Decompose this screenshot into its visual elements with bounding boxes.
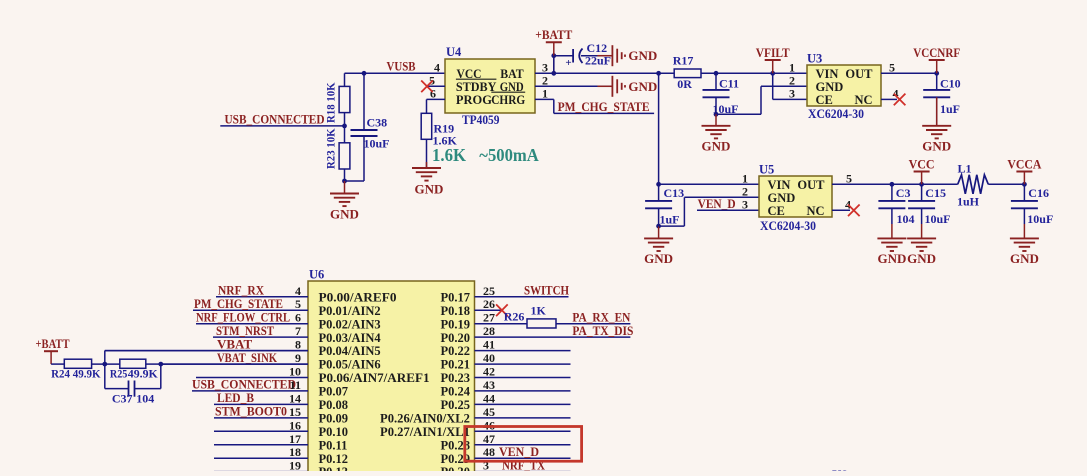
svg-text:NC: NC <box>806 204 824 218</box>
svg-text:C38: C38 <box>367 116 388 130</box>
svg-text:VIN: VIN <box>816 67 839 81</box>
svg-text:C15: C15 <box>925 186 946 200</box>
svg-text:19: 19 <box>289 459 301 471</box>
svg-text:P0.06/AIN7/AREF1: P0.06/AIN7/AREF1 <box>319 371 430 385</box>
svg-text:P0.22: P0.22 <box>440 344 470 358</box>
svg-text:BAT: BAT <box>500 67 524 81</box>
svg-text:R25: R25 <box>110 367 128 381</box>
svg-text:P0.11: P0.11 <box>319 438 348 452</box>
svg-text:40: 40 <box>483 351 495 365</box>
svg-text:L1: L1 <box>958 162 972 176</box>
svg-text:P0.13: P0.13 <box>319 465 349 471</box>
svg-text:10uF: 10uF <box>364 137 390 151</box>
svg-text:9: 9 <box>295 351 301 365</box>
svg-text:5: 5 <box>889 60 895 74</box>
svg-text:VCC: VCC <box>909 156 935 171</box>
svg-text:P0.12: P0.12 <box>319 452 349 466</box>
svg-text:VEN_D: VEN_D <box>698 196 736 211</box>
svg-text:GND: GND <box>628 48 657 63</box>
svg-text:GND: GND <box>816 80 844 94</box>
svg-text:3: 3 <box>542 60 548 74</box>
svg-text:C16: C16 <box>1028 186 1049 200</box>
svg-text:27: 27 <box>483 311 495 325</box>
svg-text:1: 1 <box>742 171 748 185</box>
svg-text:P0.19: P0.19 <box>440 317 470 331</box>
svg-text:4: 4 <box>295 284 301 298</box>
svg-text:R17: R17 <box>673 53 694 67</box>
svg-text:P0.24: P0.24 <box>440 385 470 399</box>
svg-text:47: 47 <box>483 432 495 446</box>
svg-text:1: 1 <box>542 86 548 100</box>
svg-text:0R: 0R <box>677 77 692 91</box>
svg-text:10uF: 10uF <box>1027 212 1053 226</box>
svg-text:STM_BOOT0: STM_BOOT0 <box>215 404 287 419</box>
svg-text:XC6204-30: XC6204-30 <box>808 107 864 121</box>
svg-text:6: 6 <box>430 86 436 100</box>
svg-text:18: 18 <box>289 445 301 459</box>
svg-text:CE: CE <box>816 93 833 107</box>
svg-text:R26: R26 <box>504 310 525 324</box>
svg-text:PM_CHG_STATE: PM_CHG_STATE <box>558 99 650 114</box>
svg-text:49.9K: 49.9K <box>128 367 159 381</box>
svg-text:VFILT: VFILT <box>756 45 790 60</box>
svg-text:+: + <box>565 57 571 69</box>
svg-text:GND: GND <box>702 139 731 154</box>
svg-text:8: 8 <box>295 338 301 352</box>
svg-text:11: 11 <box>290 378 301 392</box>
svg-text:5: 5 <box>846 171 852 185</box>
svg-text:OUT: OUT <box>845 67 873 81</box>
svg-text:+BATT: +BATT <box>535 27 572 42</box>
svg-text:P0.27/AIN1/XL1: P0.27/AIN1/XL1 <box>380 425 470 439</box>
svg-text:GND: GND <box>330 206 359 221</box>
svg-text:R24 49.9K: R24 49.9K <box>51 367 101 381</box>
svg-text:XC6204-30: XC6204-30 <box>760 219 816 233</box>
svg-text:PROG: PROG <box>456 93 492 107</box>
svg-text:15: 15 <box>289 405 301 419</box>
svg-text:2: 2 <box>542 73 548 87</box>
svg-text:P0.17: P0.17 <box>440 290 470 304</box>
svg-text:C37: C37 <box>112 392 133 406</box>
svg-text:VCCNRF: VCCNRF <box>913 45 960 60</box>
svg-text:28: 28 <box>483 324 495 338</box>
svg-text:TP4059: TP4059 <box>462 113 500 127</box>
svg-text:P0.09: P0.09 <box>319 412 349 426</box>
svg-text:C3: C3 <box>896 186 911 200</box>
svg-text:14: 14 <box>289 391 301 405</box>
svg-text:43: 43 <box>483 378 495 392</box>
svg-text:P0.03/AIN4: P0.03/AIN4 <box>319 331 382 345</box>
svg-text:VCCA: VCCA <box>1007 156 1042 171</box>
svg-text:10uF: 10uF <box>925 212 951 226</box>
svg-text:C11: C11 <box>719 76 739 90</box>
svg-text:GND: GND <box>877 251 906 266</box>
svg-text:6: 6 <box>295 311 301 325</box>
svg-text:1: 1 <box>789 60 795 74</box>
svg-text:44: 44 <box>483 391 495 405</box>
svg-text:U8: U8 <box>832 467 848 471</box>
svg-text:P0.30: P0.30 <box>440 465 470 471</box>
svg-text:P0.10: P0.10 <box>319 425 349 439</box>
svg-text:2: 2 <box>789 73 795 87</box>
svg-text:1K: 1K <box>531 303 547 317</box>
svg-text:NRF_TX: NRF_TX <box>502 457 546 471</box>
svg-text:VUSB: VUSB <box>387 58 416 73</box>
svg-text:GND: GND <box>628 79 657 94</box>
svg-text:P0.04/AIN5: P0.04/AIN5 <box>319 344 381 358</box>
svg-text:U3: U3 <box>807 51 822 65</box>
svg-text:P0.26/AIN0/XL2: P0.26/AIN0/XL2 <box>380 412 470 426</box>
svg-text:7: 7 <box>295 324 301 338</box>
svg-text:OUT: OUT <box>797 178 825 192</box>
svg-text:1uF: 1uF <box>660 213 680 227</box>
svg-text:R18 10K: R18 10K <box>324 82 338 123</box>
svg-text:CE: CE <box>768 204 785 218</box>
svg-text:VIN: VIN <box>768 178 791 192</box>
svg-text:104: 104 <box>136 392 154 406</box>
svg-text:1.6K: 1.6K <box>432 145 466 165</box>
svg-text:45: 45 <box>483 405 495 419</box>
svg-text:GND: GND <box>907 251 936 266</box>
svg-text:U4: U4 <box>446 45 462 59</box>
svg-text:GND: GND <box>644 251 673 266</box>
svg-text:5: 5 <box>295 297 301 311</box>
svg-text:GND: GND <box>415 182 444 197</box>
svg-text:1uH: 1uH <box>957 194 980 208</box>
svg-text:4: 4 <box>434 60 440 74</box>
svg-text:4: 4 <box>845 197 851 211</box>
svg-text:U6: U6 <box>309 268 324 282</box>
svg-text:17: 17 <box>289 432 301 446</box>
svg-text:GND: GND <box>1010 251 1039 266</box>
svg-text:104: 104 <box>897 212 915 226</box>
svg-text:P0.08: P0.08 <box>319 398 349 412</box>
svg-text:3: 3 <box>789 86 795 100</box>
svg-text:P0.05/AIN6: P0.05/AIN6 <box>319 358 381 372</box>
svg-text:GND: GND <box>768 191 796 205</box>
svg-text:NC: NC <box>854 93 872 107</box>
svg-text:P0.21: P0.21 <box>440 358 470 372</box>
svg-text:~500mA: ~500mA <box>479 145 539 165</box>
svg-text:SWITCH: SWITCH <box>524 283 569 298</box>
svg-text:1uF: 1uF <box>940 102 960 116</box>
svg-text:48: 48 <box>483 445 495 459</box>
svg-text:GND: GND <box>922 139 951 154</box>
svg-text:41: 41 <box>483 338 495 352</box>
svg-text:C13: C13 <box>664 186 685 200</box>
svg-text:25: 25 <box>483 284 495 298</box>
svg-text:C10: C10 <box>940 76 961 90</box>
svg-text:P0.20: P0.20 <box>440 331 470 345</box>
svg-text:2: 2 <box>742 184 748 198</box>
svg-text:VBAT_SINK: VBAT_SINK <box>217 350 278 365</box>
svg-text:P0.02/AIN3: P0.02/AIN3 <box>319 317 381 331</box>
svg-text:P0.00/AREF0: P0.00/AREF0 <box>319 290 397 304</box>
svg-text:P0.07: P0.07 <box>319 385 349 399</box>
svg-text:P0.18: P0.18 <box>440 304 470 318</box>
svg-text:PA_TX_DIS: PA_TX_DIS <box>572 323 633 338</box>
svg-text:26: 26 <box>483 297 495 311</box>
svg-text:3: 3 <box>742 197 748 211</box>
svg-text:+BATT: +BATT <box>36 336 70 351</box>
svg-text:P0.01/AIN2: P0.01/AIN2 <box>319 304 381 318</box>
svg-text:P0.23: P0.23 <box>440 371 470 385</box>
svg-text:USB_CONNECTED: USB_CONNECTED <box>225 111 325 126</box>
svg-text:R23 10K: R23 10K <box>324 128 338 169</box>
svg-text:P0.25: P0.25 <box>440 398 470 412</box>
svg-text:16: 16 <box>289 418 301 432</box>
svg-text:CHRG: CHRG <box>491 93 525 107</box>
svg-text:42: 42 <box>483 365 495 379</box>
svg-text:U5: U5 <box>759 162 774 176</box>
svg-text:STDBY: STDBY <box>456 80 497 94</box>
